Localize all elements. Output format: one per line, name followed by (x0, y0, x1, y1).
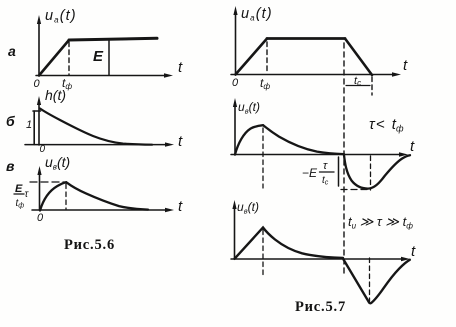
peak level dashed line row v (30, 181, 65, 183)
svg-text:tф: tф (16, 198, 25, 210)
0 label row a (34, 78, 41, 90)
dashed vertical at trough g2 (370, 156, 372, 190)
svg-text:τ: τ (25, 189, 30, 200)
svg-text:tс: tс (354, 75, 361, 88)
t_f label g1 (260, 76, 270, 91)
y-axis row v (37, 166, 41, 210)
svg-text:t: t (411, 243, 416, 260)
fraction E tau / t_f (15, 183, 30, 210)
svg-text:t: t (178, 133, 183, 150)
dashed vertical at peak row v (65, 184, 67, 209)
svg-text:а: а (8, 43, 16, 59)
svg-text:б: б (6, 113, 15, 129)
svg-text:tи ≫ τ ≫ tф: tи ≫ τ ≫ tф (348, 214, 413, 231)
svg-text:в: в (6, 158, 15, 174)
axis label u_v(t) row v (45, 154, 70, 172)
svg-text:uв(t): uв(t) (237, 200, 259, 216)
svg-text:uв(t): uв(t) (238, 100, 260, 116)
t label row a (178, 59, 183, 76)
amplitude tick g2 (338, 157, 340, 186)
axis label h(t) (45, 87, 66, 103)
falling ramp g1 (345, 39, 372, 76)
t label row v (178, 198, 183, 215)
x-axis g3 (231, 257, 410, 261)
axis label u_a(t) row a (45, 8, 77, 25)
axis label u_v(t) g3 (237, 200, 259, 216)
svg-text:h(t): h(t) (45, 87, 66, 103)
svg-text:0: 0 (37, 212, 44, 224)
plateau g1 (267, 37, 345, 40)
output pulse curve row v (40, 182, 148, 210)
svg-text:Рис.5.6: Рис.5.6 (64, 237, 115, 253)
x-axis g1 (231, 72, 401, 76)
t label g1 (403, 57, 408, 74)
fraction bar (14, 193, 24, 195)
dashed vertical at peak g3 (262, 230, 264, 276)
t_c measure line g1 (346, 85, 370, 87)
negative triangle curve g3 (344, 260, 410, 304)
0 label row b (40, 144, 46, 155)
svg-text:τ < tф: τ < tф (369, 116, 404, 134)
svg-text:uа(t): uа(t) (241, 6, 273, 23)
t label g2 (410, 138, 415, 155)
dashed vertical at t_f g1 (266, 42, 268, 74)
svg-text:0: 0 (232, 77, 239, 89)
dashed vertical at trough g3 (369, 258, 371, 304)
svg-text:t: t (178, 198, 183, 215)
y-axis g3 (232, 200, 236, 259)
svg-text:tс: tс (322, 175, 329, 187)
unit step vertical row b (33, 111, 35, 145)
x-axis row v (32, 208, 174, 212)
0 label g1 (232, 77, 239, 89)
x-axis g2 (231, 152, 408, 156)
y-axis row b (37, 96, 41, 145)
E label (93, 48, 104, 65)
ramp row a (39, 40, 69, 76)
svg-text:E: E (93, 48, 104, 65)
svg-text:uв(t): uв(t) (45, 154, 70, 172)
svg-text:0: 0 (34, 78, 41, 90)
t label g3 (411, 243, 416, 260)
svg-text:uа(t): uа(t) (45, 8, 77, 25)
0 label row v (37, 212, 44, 224)
y-axis row a (37, 15, 41, 76)
dashed vertical at peak g2 (262, 128, 264, 188)
t label row b (178, 133, 183, 150)
caption Ris 5.6 (64, 237, 115, 253)
label -E tau/t_c (302, 160, 329, 187)
row label б (6, 113, 15, 129)
rising ramp g1 (236, 39, 268, 75)
long dashed vertical at fall start (343, 43, 345, 273)
t_f label row a (62, 76, 72, 91)
dashed vertical at fall end g1 (371, 77, 373, 95)
plateau row a (69, 38, 157, 40)
dashed vertical at t_f row a (68, 42, 70, 75)
label tau < t_f (369, 116, 404, 134)
caption Ris 5.7 (295, 299, 346, 315)
svg-text:E: E (15, 183, 23, 195)
svg-text:Рис.5.7: Рис.5.7 (295, 299, 346, 315)
y-axis g1 (233, 6, 237, 75)
svg-text:t: t (410, 138, 415, 155)
axis label u_v(t) g2 (238, 100, 260, 116)
fraction bar g2 (320, 171, 335, 173)
row label в (6, 158, 15, 174)
unit step top tick row b (33, 110, 41, 112)
svg-text:−E: −E (302, 166, 318, 180)
svg-text:1: 1 (26, 119, 32, 131)
axis label u_a(t) g1 (241, 6, 273, 23)
x-axis row a (36, 73, 173, 77)
svg-text:τ: τ (323, 160, 328, 172)
row label а (8, 43, 16, 59)
positive triangle curve g3 (235, 228, 344, 259)
y-axis g2 (233, 98, 237, 155)
positive spike curve g2 (235, 125, 344, 154)
E vertical line row a (108, 40, 110, 75)
exponential decay h(t) (40, 109, 152, 145)
1 label (26, 119, 32, 131)
svg-text:tф: tф (260, 76, 270, 91)
negative spike curve g2 (344, 155, 410, 189)
svg-text:t: t (403, 57, 408, 74)
label t_i >> tau >> t_f (348, 214, 413, 231)
t_c label g1 (354, 75, 361, 88)
dashed horizontal at trough level g2 (341, 189, 369, 191)
x-axis row b (25, 142, 174, 146)
svg-text:t: t (178, 59, 183, 76)
